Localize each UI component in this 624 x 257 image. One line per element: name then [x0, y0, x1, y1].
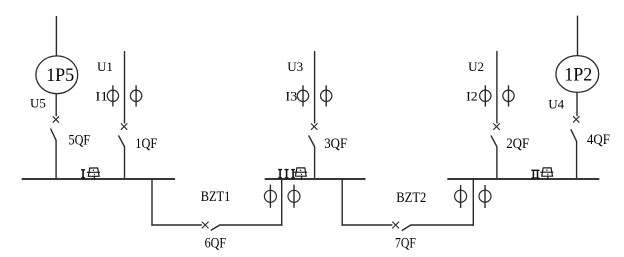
- svg-text:I3: I3: [285, 89, 297, 104]
- svg-text:U1: U1: [97, 59, 113, 74]
- svg-text:I2: I2: [466, 89, 478, 104]
- svg-text:U3: U3: [287, 59, 303, 74]
- svg-text:U4: U4: [548, 97, 564, 112]
- svg-text:5QF: 5QF: [69, 133, 91, 149]
- svg-text:U2: U2: [468, 59, 484, 74]
- svg-text:U5: U5: [30, 96, 46, 111]
- svg-text:2QF: 2QF: [506, 136, 529, 152]
- svg-text:BZT1: BZT1: [201, 189, 231, 205]
- svg-text:7QF: 7QF: [395, 236, 416, 252]
- svg-text:I1: I1: [95, 89, 108, 104]
- svg-text:BZT2: BZT2: [396, 190, 426, 206]
- svg-text:6QF: 6QF: [205, 236, 227, 252]
- svg-text:3QF: 3QF: [324, 136, 347, 152]
- svg-text:1P5: 1P5: [46, 65, 74, 86]
- svg-text:4QF: 4QF: [587, 132, 610, 148]
- svg-text:1P2: 1P2: [564, 64, 592, 85]
- svg-text:1QF: 1QF: [135, 136, 157, 152]
